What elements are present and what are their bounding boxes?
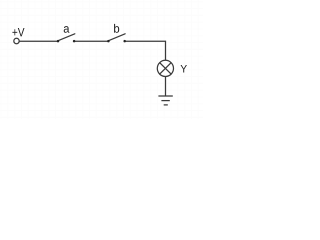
lamp Y cross diagonal 2 <box>160 63 171 74</box>
ground top bar <box>158 95 172 97</box>
switch b left contact dot <box>107 40 110 43</box>
wire from +V terminal to switch a <box>19 40 57 42</box>
wire from switch b to corner <box>126 41 166 60</box>
lamp Y cross diagonal 1 <box>160 63 171 74</box>
switch a blade <box>58 34 75 41</box>
label Y <box>181 65 187 73</box>
switch a right contact dot <box>73 40 76 43</box>
label +V <box>12 28 24 36</box>
switch a left contact dot <box>57 40 60 43</box>
ground middle bar <box>161 100 169 102</box>
ground bottom bar <box>164 104 168 106</box>
wire from lamp to ground <box>165 76 167 95</box>
wire from switch a to switch b <box>75 40 108 42</box>
switch b blade <box>109 34 126 41</box>
switch b right contact dot <box>123 40 126 43</box>
node +V terminal circle <box>14 38 19 43</box>
label a <box>64 26 70 33</box>
lamp Y circle <box>157 60 173 76</box>
label b <box>114 24 119 33</box>
